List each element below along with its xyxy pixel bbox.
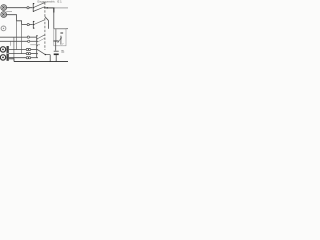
svg-text:E 1: E 1 [58,0,63,4]
left channel wire row y41.3 [0,40,28,42]
node circle wafer-2 input [27,24,29,26]
jack J5 [0,55,5,60]
junction dot capacitor/bus [56,61,57,62]
junction dot wire/bus [50,61,51,62]
bus dark nub at junction [53,8,55,13]
short lead x10.5 row to connector [9,41,11,46]
svg-text:Eingangswahls.: Eingangswahls. [38,0,56,4]
potentiometer wiper arrow [58,37,62,43]
jack J1 second lead stub [6,10,12,12]
output wire wafer-1 to bus junction [46,7,55,9]
wire node to contacts [29,7,32,9]
background [0,0,68,67]
wiper arm wafer-1 lower [34,7,44,11]
amplifier block box [54,29,66,46]
pivot dots wafer-1 [44,7,46,9]
wafer-2 contact column [32,21,34,29]
right vertical bus [53,8,55,29]
jack J2 [1,12,7,18]
capacitor C1 lead [55,41,57,51]
row y44.8 stub [30,44,40,46]
wire row y53.6 [9,53,26,55]
output wire wafer-2 down to box top [48,21,50,29]
output of wafer-4 [45,54,50,56]
potentiometer body [60,36,62,44]
wiper arm wafer-3 upper [38,35,45,39]
wafer-2 pivot to output diagonal [45,17,49,21]
wire J1 to switch [6,7,26,9]
block label mark [60,32,63,34]
ground bus bottom [14,61,68,63]
wiper arm wafer-4 to pivot [38,50,46,55]
lead from box top down to capacitor bar [55,29,57,41]
left channel wire row y37 [0,36,27,38]
output wire continuation to right edge (faint) [55,7,68,9]
jack J4 (bottom left) [0,47,5,52]
jack J1 (top left) [1,5,7,11]
wire row y57.7 [9,57,26,59]
vertical wire x16.5 down [16,21,18,50]
wire to wafer-2 contacts [22,24,27,26]
svg-text:4,7: 4,7 [60,42,64,46]
wire down to ground bus [49,55,51,62]
wiper arm wafer-3 mid [38,38,45,42]
jack J3 (mid left, faint) [1,26,6,31]
capacitor C1 plate 2 (thick) [54,53,59,55]
vertical wire x21.6 down [21,25,23,54]
node circle on J1 wire [27,7,29,9]
wire along box top to right edge [54,28,68,30]
bottom connector block bar [7,46,9,61]
switch S1 wafer-1 contact column [32,3,34,12]
switch shaft (mechanical link, dashed) [44,2,46,50]
wire J2 staircase to wafer-2 [6,15,21,25]
wiper arm wafer-1 upper [34,3,44,8]
wafer-3 contact column [36,35,38,58]
capacitor C1 plate 1 [54,50,59,52]
capacitor C1 top bar junction [53,40,58,42]
ground jog from connector [9,59,14,62]
wiper arm wafer-2 [34,20,44,25]
plus mark [61,49,63,51]
vertical wire x13.9 down to ground bus [13,37,15,62]
wire row y49.5 [9,49,26,51]
capacitor C1 bottom lead [55,55,57,62]
